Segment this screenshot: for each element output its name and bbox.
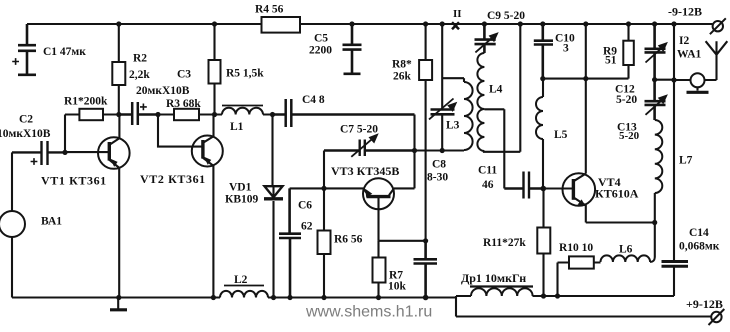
capacitor C6 bbox=[279, 188, 301, 297]
svg-text:3: 3 bbox=[563, 43, 569, 55]
inductor L6 bbox=[601, 255, 655, 262]
wire C3 node to VT2 base bbox=[158, 115, 203, 147]
svg-text:62: 62 bbox=[301, 221, 313, 233]
svg-text:L6: L6 bbox=[619, 244, 633, 256]
inductor L5 bbox=[536, 79, 543, 189]
capacitor C14 bbox=[662, 262, 689, 297]
svg-text:www.shems.h1.ru: www.shems.h1.ru bbox=[305, 304, 432, 321]
svg-text:-9-12В: -9-12В bbox=[668, 5, 702, 19]
varicap diode VD1 bbox=[264, 186, 283, 199]
svg-text:51: 51 bbox=[605, 55, 617, 67]
svg-text:R5 1,5k: R5 1,5k bbox=[226, 68, 264, 80]
svg-text:20мкХ10В: 20мкХ10В bbox=[136, 85, 190, 97]
resistor R9 bbox=[623, 24, 634, 79]
svg-text:C6: C6 bbox=[298, 200, 312, 212]
transistor VT2 bbox=[192, 115, 223, 298]
wire VT4 base from C11 bbox=[543, 187, 573, 189]
svg-text:R3 68k: R3 68k bbox=[166, 98, 201, 110]
wire bottom rail drop to connector bbox=[455, 296, 457, 317]
wire R1 left to base node bbox=[64, 115, 66, 153]
svg-text:C1 47мк: C1 47мк bbox=[43, 46, 86, 58]
svg-text:C3: C3 bbox=[177, 69, 191, 81]
svg-text:Др1 10мкГн: Др1 10мкГн bbox=[461, 271, 526, 285]
svg-text:C14: C14 bbox=[689, 227, 709, 239]
svg-text:VT2 КТ361: VT2 КТ361 bbox=[140, 172, 206, 186]
svg-text:VT1 КТ361: VT1 КТ361 bbox=[41, 174, 107, 188]
svg-text:L7: L7 bbox=[679, 155, 693, 167]
transistor VT1 bbox=[65, 115, 130, 298]
inductor L3 bbox=[464, 78, 473, 150]
svg-text:VT3 КТ345В: VT3 КТ345В bbox=[331, 164, 399, 178]
wire top supply rail left bbox=[27, 23, 712, 25]
resistor R1 bbox=[65, 109, 119, 120]
svg-text:VD1: VD1 bbox=[229, 182, 252, 194]
svg-text:10мкХ10В: 10мкХ10В bbox=[0, 128, 51, 140]
svg-text:2200: 2200 bbox=[309, 45, 332, 57]
svg-text:L4: L4 bbox=[489, 84, 503, 96]
svg-text:26k: 26k bbox=[393, 71, 412, 83]
microphone BA1 bbox=[0, 152, 25, 297]
wire C4 line corner down to C7 line bbox=[413, 115, 415, 151]
wire L1 node down through VD1 to bottom rail bbox=[273, 115, 274, 298]
transistor VT4 bbox=[563, 173, 596, 222]
wire bottom positive rail left section bbox=[12, 296, 456, 298]
svg-text:5-20: 5-20 bbox=[616, 94, 637, 106]
resistor R8 bbox=[419, 24, 432, 241]
capacitor C11 bbox=[504, 172, 543, 199]
inductor L7 bbox=[655, 120, 663, 258]
svg-text:C8: C8 bbox=[432, 159, 446, 171]
wire collector node line bbox=[543, 78, 629, 80]
resistor R5 bbox=[209, 24, 221, 115]
capacitor C4 bbox=[273, 99, 415, 127]
svg-text:R8*: R8* bbox=[392, 59, 412, 71]
switch mark II on rail bbox=[452, 22, 459, 29]
svg-text:R10 10: R10 10 bbox=[559, 242, 593, 254]
resistor R6 bbox=[318, 188, 331, 297]
svg-text:R6 56: R6 56 bbox=[334, 234, 363, 246]
capacitor C10 bbox=[534, 24, 553, 79]
wire lower +9-12V rail bbox=[456, 315, 711, 317]
connector +9-12V bbox=[709, 309, 725, 325]
svg-text:II: II bbox=[453, 8, 462, 20]
svg-text:C2: C2 bbox=[19, 114, 33, 126]
capacitor C2 bbox=[12, 141, 65, 165]
wire tank top branch bbox=[442, 77, 464, 79]
capacitor C1 bbox=[12, 24, 36, 75]
svg-text:+9-12В: +9-12В bbox=[686, 297, 723, 311]
connector -9-12V bbox=[710, 18, 726, 34]
wire antenna coupling line bbox=[655, 24, 691, 80]
wire C7 left vertical to base wire bbox=[323, 151, 325, 189]
svg-text:КВ109: КВ109 bbox=[225, 194, 259, 206]
svg-text:КТ610А: КТ610А bbox=[595, 187, 639, 201]
transistor VT3 bbox=[363, 178, 394, 241]
wire VT3 emitter node to R8 line bbox=[379, 240, 426, 242]
wire tank bottom bbox=[415, 149, 465, 152]
wire L4 tap to C11 drop bbox=[484, 109, 504, 188]
svg-text:C4 8: C4 8 bbox=[302, 94, 325, 106]
svg-text:R11*27k: R11*27k bbox=[483, 237, 526, 249]
svg-text:L2: L2 bbox=[234, 274, 248, 286]
svg-text:C5: C5 bbox=[314, 33, 328, 45]
svg-text:R4 56: R4 56 bbox=[255, 4, 284, 16]
wire L4 bottom to rail drop bbox=[483, 24, 520, 152]
resistor R11 bbox=[537, 189, 550, 297]
capacitor C5 bbox=[343, 24, 362, 74]
svg-text:R1*200k: R1*200k bbox=[64, 96, 108, 108]
trimmer capacitor C9 bbox=[475, 24, 499, 53]
capacitor C3 bbox=[119, 102, 158, 125]
svg-text:0,068мк: 0,068мк bbox=[679, 241, 720, 253]
wire VT4 emitter line bbox=[586, 221, 655, 223]
inductor L4 bbox=[477, 53, 484, 151]
wire tank stem from rail bbox=[441, 24, 443, 151]
antenna jack circle bbox=[687, 73, 709, 92]
svg-text:WA1: WA1 bbox=[677, 49, 702, 61]
resistor R3 bbox=[158, 109, 215, 120]
trimmer capacitor C7 bbox=[324, 133, 415, 157]
svg-text:10k: 10k bbox=[388, 281, 407, 293]
wire C14 stem bbox=[673, 80, 675, 261]
svg-text:R2: R2 bbox=[133, 53, 147, 65]
inductor L2 bbox=[220, 286, 268, 298]
wire VT4 collector feed bbox=[585, 24, 587, 174]
wire Dr1 feed line bbox=[456, 295, 674, 297]
trimmer capacitor C12 bbox=[645, 24, 668, 80]
svg-text:L5: L5 bbox=[554, 129, 568, 141]
trimmer capacitor C13 bbox=[645, 80, 668, 120]
inductor choke Dr1 bbox=[470, 287, 533, 297]
capacitor bypass at R8 line bbox=[414, 241, 438, 298]
svg-text:46: 46 bbox=[482, 179, 494, 191]
svg-text:I2: I2 bbox=[679, 35, 689, 47]
resistor R7 bbox=[373, 241, 386, 298]
antenna WA1 symbol bbox=[705, 41, 728, 80]
svg-text:2,2k: 2,2k bbox=[129, 69, 150, 81]
svg-text:8-30: 8-30 bbox=[427, 172, 448, 184]
svg-text:L1: L1 bbox=[230, 121, 244, 133]
svg-text:ВА1: ВА1 bbox=[41, 216, 62, 228]
svg-text:L3: L3 bbox=[446, 120, 460, 132]
inductor L1 bbox=[215, 106, 273, 115]
wire VT3 base line bbox=[290, 151, 415, 189]
svg-text:C11: C11 bbox=[478, 165, 497, 177]
resistor R10 bbox=[558, 256, 601, 296]
trimmer capacitor C8 bbox=[429, 99, 457, 120]
ground chassis bar bbox=[110, 298, 127, 310]
svg-text:C9 5-20: C9 5-20 bbox=[487, 10, 525, 22]
svg-text:5-20: 5-20 bbox=[619, 130, 640, 142]
resistor R2 bbox=[112, 24, 125, 115]
resistor R4 bbox=[262, 17, 301, 33]
svg-text:C7 5-20: C7 5-20 bbox=[340, 124, 378, 136]
